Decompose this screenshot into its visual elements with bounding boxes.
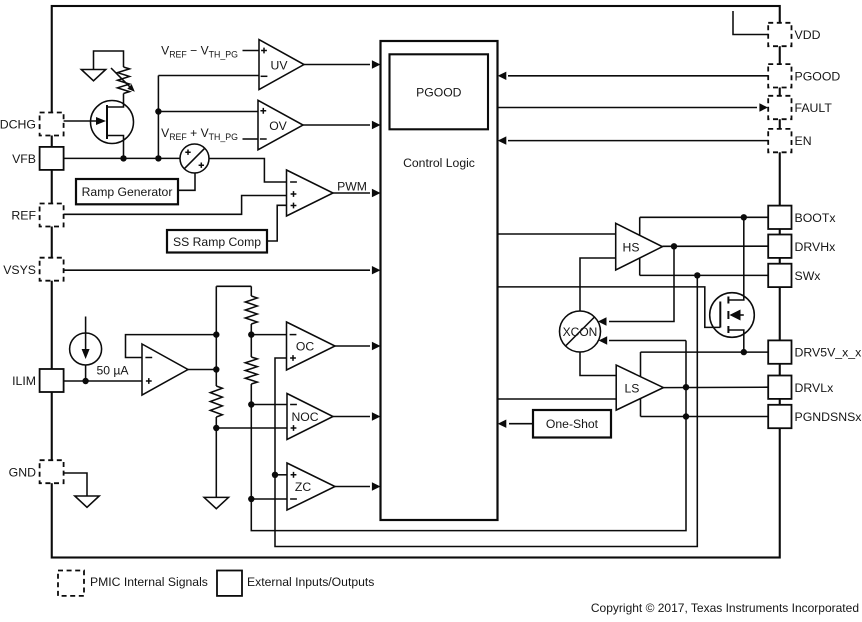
junction SWx / OC sense riser [694, 272, 700, 278]
svg-text:OV: OV [269, 119, 287, 133]
wire: M1 drain to BOOTx rail [728, 217, 743, 300]
SS Ramp Comp block [167, 230, 267, 253]
arrowhead into XCON from LS [599, 336, 608, 344]
svg-text:PGOOD: PGOOD [416, 86, 462, 100]
wire: OC output to Control Logic [335, 345, 370, 347]
wire: ZC output to Control Logic [335, 486, 370, 488]
svg-text:PWM: PWM [337, 180, 367, 194]
arrowhead FAULT pin [759, 103, 768, 111]
junction BOOTx / FET drain [741, 214, 747, 220]
arrowhead into Q1 gate [96, 117, 106, 125]
wire: BOOTx rail [640, 216, 768, 218]
wire: chain2 middle [250, 324, 252, 357]
junction SW riser / ZC plus tap [272, 472, 278, 478]
pin SWx [768, 264, 821, 287]
svg-text:HS: HS [623, 240, 640, 254]
svg-text:EN: EN [795, 134, 812, 148]
resistor chain1 [210, 386, 222, 417]
pin VFB [12, 147, 64, 170]
driver HS [616, 223, 663, 270]
M1 body connection with arrow [730, 310, 744, 321]
wire: resistor bottom to Q1 drain [107, 94, 124, 108]
wire: chain1 resistor to ground [215, 417, 217, 497]
wire: GND pin to ground symbol [64, 473, 88, 496]
svg-text:VSYS: VSYS [3, 263, 36, 277]
svg-text:Copyright © 2017, Texas Instru: Copyright © 2017, Texas Instruments Inco… [591, 601, 859, 615]
pin VDD [768, 23, 820, 46]
Control Logic block [381, 41, 498, 520]
wire: HS bootstrap stub to BOOTx rail [639, 217, 641, 235]
comparator OC [287, 322, 336, 370]
svg-text:GND: GND [9, 465, 36, 479]
comparator NOC [287, 394, 333, 440]
arrowhead One-Shot into Control Logic [498, 420, 507, 428]
svg-text:PMIC Internal Signals: PMIC Internal Signals [90, 575, 208, 589]
svg-text:VFB: VFB [12, 152, 36, 166]
arrowhead UV output [372, 60, 381, 68]
comparator PWM [287, 170, 334, 216]
wire: LS output to DRVLx [663, 386, 768, 388]
legend: PMIC internal signals [58, 571, 208, 596]
junction VFB / comparator sense [155, 155, 161, 161]
pin ILIM [12, 369, 64, 392]
wire: DCHG pin to Q1 gate [64, 120, 97, 122]
pin DCHG [0, 113, 64, 136]
svg-text:REF: REF [11, 209, 36, 223]
current source 50uA [70, 317, 102, 366]
comparator UV [259, 40, 304, 90]
svg-text:LS: LS [625, 381, 640, 395]
transistor Q1 (DCHG FET) [91, 101, 134, 144]
svg-text:OC: OC [296, 339, 314, 353]
wire: bracket chain1 to chain2 [216, 285, 251, 287]
PGOOD sub-block U-PGOOD [390, 54, 489, 129]
arrowhead PWM output [372, 189, 381, 197]
arrowhead ZC output [372, 482, 381, 490]
wire: LS supply stub to DRV5V rail [640, 352, 642, 377]
junction at Q1 source / VFB [120, 155, 126, 161]
arrowhead VSYS [372, 266, 381, 274]
junction chain2 / NOC minus tap [248, 401, 254, 407]
junction DRV5V / FET source [741, 349, 747, 355]
comparator ZC [287, 463, 335, 510]
wire: VREF+VTH_PG to OV minus input [243, 138, 259, 140]
wire: M1 source to DRV5V rail [728, 330, 743, 352]
junction ILIM / current source [82, 378, 88, 384]
arrowhead NOC output [372, 412, 381, 420]
wire: PGNDSNSx rail [641, 416, 769, 418]
resistor chain2 lower [245, 357, 257, 384]
svg-text:ILIM: ILIM [12, 374, 36, 388]
wire: HS return stub to SWx rail [639, 258, 641, 276]
svg-text:SS Ramp Comp: SS Ramp Comp [173, 235, 261, 249]
op-amp U-ILIM [142, 344, 188, 395]
wire: chain2 to OC minus input [251, 334, 286, 336]
Ramp Generator block [76, 179, 178, 204]
wire: op-amp feedback loop [126, 335, 217, 358]
legend: external inputs/outputs [217, 571, 374, 596]
pin PGOOD [768, 64, 840, 87]
wire: XCON to LS upper input [580, 352, 616, 375]
wire: VDD bracket stub [733, 11, 768, 35]
junction PGNDSNSx / chain2 riser [683, 413, 689, 419]
svg-text:Control Logic: Control Logic [403, 156, 475, 170]
wire: chain2 to ZC minus input [251, 498, 287, 500]
wire: PGOOD pin to Control Logic [508, 75, 768, 77]
junction op-amp output / chain1 [213, 366, 219, 372]
junction HS output [671, 243, 677, 249]
wire: chain1 vertical top [215, 286, 217, 386]
wire: DRVLx feedback to XCON [609, 340, 686, 342]
wire: VFB pin to summing junction [64, 157, 181, 159]
svg-text:BOOTx: BOOTx [795, 211, 837, 225]
wire: ILIM pin to error amp plus input [64, 380, 143, 382]
wire: EN pin to Control Logic [508, 140, 768, 142]
pin DRVHx [768, 235, 836, 258]
wire: NOC output to Control Logic [333, 416, 370, 418]
pin GND [9, 460, 64, 483]
junction chain1 / NOC plus tap [213, 425, 219, 431]
wire: VREF-VTH_PG to UV plus input [243, 50, 260, 52]
wire: LS return stub to PGNDSNSx rail [640, 399, 642, 417]
svg-text:DCHG: DCHG [0, 118, 36, 132]
svg-text:SWx: SWx [795, 269, 822, 283]
wire: Ramp Generator to summing junction [178, 173, 195, 190]
wire: chain2 bottom run to right-side net [251, 341, 686, 531]
arrowhead OV output [372, 121, 381, 129]
svg-text:External Inputs/Outputs: External Inputs/Outputs [247, 575, 374, 589]
svg-text:One-Shot: One-Shot [546, 417, 599, 431]
resistor chain2 upper [245, 296, 257, 324]
wire: OV output to Control Logic [303, 124, 370, 126]
pin DRVLx [768, 376, 834, 399]
wire: Control Logic to LS input [498, 398, 617, 400]
wire: bracket from ground to variable resistor top [94, 51, 124, 70]
One-Shot block [533, 410, 611, 438]
wire: chain1 tap to NOC plus input [216, 427, 287, 429]
transistor M1 (pass FET) [710, 293, 755, 338]
pin BOOTx [768, 206, 836, 229]
wire: VFB sense vertical riser [157, 76, 159, 159]
junction chain2 / OC minus tap [248, 331, 254, 337]
svg-text:UV: UV [271, 58, 289, 72]
wire: Control Logic to HS input [498, 233, 616, 235]
wire: Control Logic to FAULT pin [498, 107, 758, 109]
pin REF [11, 204, 63, 227]
variable resistor R-DCHG [111, 67, 137, 94]
pin FAULT [768, 96, 832, 119]
wire: Q1 source to VFB node [107, 136, 124, 159]
arrowhead OC output [372, 342, 381, 350]
summing junction (VFB + ramp) [180, 144, 209, 173]
wire: UV output to Control Logic [304, 64, 370, 66]
ground symbol (discharge path) [81, 70, 105, 81]
junction LS output / XCON feedback riser [683, 384, 689, 390]
wire: HS output feedback to XCON [609, 246, 674, 321]
arrowhead into XCON from HS [598, 317, 607, 325]
pin DRV5V_x_x [768, 340, 862, 363]
wire: chain2 to NOC minus input [251, 404, 287, 406]
ground symbol (GND pin) [75, 496, 99, 507]
arrowhead PGOOD into Control Logic [498, 72, 507, 80]
svg-text:PGOOD: PGOOD [795, 69, 841, 83]
wire: VSYS pin to Control Logic [64, 269, 371, 271]
svg-text:50 µA: 50 µA [96, 364, 129, 378]
wire: REF pin to PWM plus input [64, 196, 287, 215]
svg-text:VDD: VDD [795, 28, 821, 42]
svg-text:DRVHx: DRVHx [795, 240, 837, 254]
svg-text:NOC: NOC [291, 410, 318, 424]
PMIC outer boundary box [52, 6, 780, 558]
junction chain2 / ZC minus tap [248, 496, 254, 502]
driver LS [616, 365, 663, 410]
wire: One-Shot to Control Logic [509, 423, 533, 425]
svg-text:XCON: XCON [563, 325, 598, 339]
wire: SS Ramp Comp to PWM second plus input [267, 205, 287, 241]
wire: SWx rail [640, 274, 768, 276]
wire: Control Logic to M1 gate [498, 287, 721, 328]
pin PGNDSNSx [768, 405, 862, 428]
wire: chain2 top lead [250, 286, 252, 296]
pin VSYS [3, 258, 63, 281]
wire: OC plus input from SW sense riser [275, 275, 697, 546]
wire: op-amp output to divider [188, 369, 216, 371]
wire: riser to UV inverting input [158, 75, 259, 77]
svg-text:DRVLx: DRVLx [795, 381, 835, 395]
wire: DRV5V_x_x rail [641, 351, 769, 353]
comparator OV [258, 100, 303, 150]
wire: PWM output to Control Logic [333, 192, 370, 194]
ground symbol (divider) [204, 497, 228, 508]
junction feedback / divider chain1 [213, 331, 219, 337]
svg-text:FAULT: FAULT [795, 101, 833, 115]
pin EN [768, 129, 811, 152]
wire: riser to ZC plus input [275, 474, 287, 476]
wire: XCON to HS lower input [580, 258, 616, 311]
arrowhead EN into Control Logic [498, 136, 507, 144]
wire: riser to OV non-inverting input [158, 111, 258, 113]
svg-text:DRV5V_x_x: DRV5V_x_x [795, 346, 862, 360]
svg-text:Ramp Generator: Ramp Generator [82, 185, 173, 199]
wire: HS output to DRVHx [662, 245, 768, 247]
cross-conduction block XCON [560, 311, 601, 352]
svg-text:ZC: ZC [295, 480, 311, 494]
svg-text:PGNDSNSx: PGNDSNSx [795, 410, 862, 424]
junction riser / OV input [155, 108, 161, 114]
wire: summing junction to PWM minus input [209, 159, 287, 183]
wire: current source to ILIM node [85, 365, 87, 381]
